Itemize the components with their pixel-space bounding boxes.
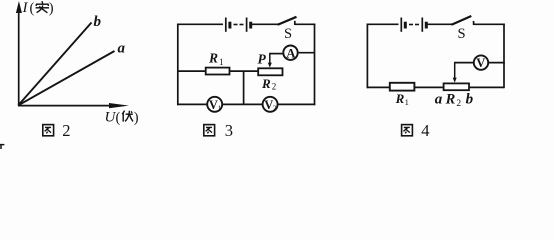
svg-text:R: R xyxy=(395,91,405,106)
wire right edge xyxy=(314,24,316,106)
svg-text:b: b xyxy=(94,14,102,30)
battery B2 xyxy=(401,18,426,32)
caption 图 2 xyxy=(43,125,54,136)
svg-text:): ) xyxy=(134,110,139,126)
switch S2 xyxy=(451,16,474,25)
wire right edge xyxy=(503,24,505,89)
svg-text:1: 1 xyxy=(219,57,224,67)
line a xyxy=(18,51,114,105)
wire bottom row left xyxy=(177,103,207,105)
wire switch to top-right corner xyxy=(295,23,316,25)
slider arrow P xyxy=(268,54,272,68)
svg-text:S: S xyxy=(284,26,292,42)
caption 图 4 xyxy=(402,125,413,136)
svg-text:1: 1 xyxy=(405,97,409,107)
wire slider to ammeter xyxy=(269,53,283,55)
wire V2 to right edge xyxy=(277,103,315,105)
svg-text:S: S xyxy=(458,26,466,42)
rheostat R2b xyxy=(444,83,469,90)
resistor R1b xyxy=(390,83,415,91)
label R2b xyxy=(445,92,462,110)
svg-text:R: R xyxy=(208,50,218,65)
wire bottom left xyxy=(367,86,390,88)
battery B1 xyxy=(226,18,251,32)
switch S xyxy=(277,17,296,26)
x-axis U xyxy=(18,103,129,108)
voltmeter V2 xyxy=(263,97,278,112)
corner mark bottom-left xyxy=(0,144,4,149)
resistor R1 xyxy=(206,68,230,75)
svg-text:(: ( xyxy=(116,110,121,126)
wire ammeter to right edge xyxy=(298,52,315,54)
svg-text:I: I xyxy=(22,0,29,16)
svg-text:a: a xyxy=(435,91,443,107)
wire left edge xyxy=(366,24,368,89)
svg-text:V: V xyxy=(476,56,485,70)
svg-text:P: P xyxy=(258,52,267,67)
svg-text:R: R xyxy=(261,76,271,91)
svg-text:1: 1 xyxy=(218,104,222,113)
wire top-left xyxy=(177,23,223,25)
voltmeter V1 xyxy=(207,97,222,112)
caption 图 3 xyxy=(204,125,215,136)
ammeter A1 xyxy=(283,46,297,60)
伏 glyph xyxy=(122,111,133,122)
wire voltmeter to right edge xyxy=(488,62,505,64)
svg-text:): ) xyxy=(49,1,54,17)
wire left edge xyxy=(177,24,179,106)
label R1b xyxy=(395,91,409,107)
svg-text:2: 2 xyxy=(456,99,461,109)
wire battery to switch xyxy=(428,23,452,25)
svg-text:R: R xyxy=(445,92,456,108)
wire middle row left xyxy=(177,70,206,72)
label R2 xyxy=(261,76,276,92)
wire switch to top-right corner xyxy=(474,23,505,25)
svg-text:a: a xyxy=(118,40,126,56)
wire R1b to R2b xyxy=(414,86,443,88)
label R1 xyxy=(208,50,224,66)
svg-text:2: 2 xyxy=(272,82,277,92)
svg-text:A: A xyxy=(286,46,295,60)
svg-text:2: 2 xyxy=(62,121,70,140)
wire top-left xyxy=(367,23,399,25)
svg-text:V: V xyxy=(209,98,218,112)
svg-text:3: 3 xyxy=(225,121,233,140)
svg-text:2: 2 xyxy=(273,104,277,113)
node junction wire down xyxy=(243,71,245,104)
wire V1 to V2 xyxy=(222,103,263,105)
line b xyxy=(18,23,91,106)
wire voltmeter to slider xyxy=(454,62,474,64)
svg-text:(: ( xyxy=(30,1,35,17)
label (伏) xyxy=(116,110,139,126)
voltmeter V xyxy=(474,55,488,69)
label (安) xyxy=(30,1,54,17)
svg-text:4: 4 xyxy=(421,121,429,140)
slider arrow on R2b xyxy=(453,63,457,83)
安 glyph xyxy=(36,1,49,13)
svg-text:b: b xyxy=(466,91,474,107)
wire R1 to R2 xyxy=(230,70,259,72)
wire R2b to right edge xyxy=(470,86,504,88)
wire battery to switch xyxy=(252,23,278,25)
rheostat R2 xyxy=(258,68,282,75)
y-axis I xyxy=(16,1,22,106)
